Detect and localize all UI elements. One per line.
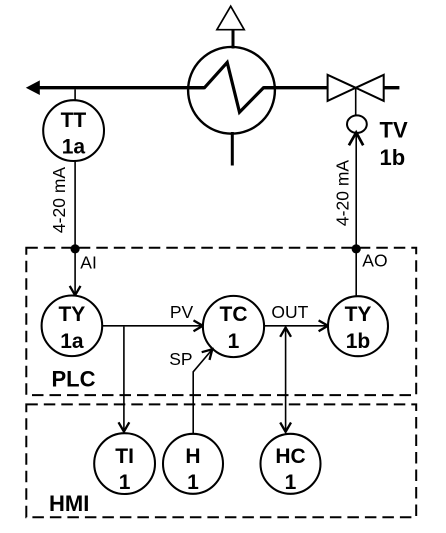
svg-text:TI: TI [115,445,134,468]
svg-text:4-20 mA: 4-20 mA [332,160,352,226]
svg-text:AO: AO [362,251,387,271]
svg-text:1b: 1b [380,145,406,170]
svg-text:H: H [185,445,200,468]
wire: TY1a to TC1 (PV) [102,325,201,327]
svg-text:1: 1 [285,471,297,494]
heat exchanger zigzag coil [188,62,275,112]
svg-text:PLC: PLC [52,367,96,392]
svg-text:HC: HC [275,445,305,468]
valve actuator circle [347,115,367,133]
control valve TV1b body left triangle [328,75,356,101]
wire: TC1 to TY1b (OUT) [264,325,326,327]
function block TY 1b circle [328,296,388,356]
valve stem [355,88,357,116]
arrowhead down into TY1a [70,286,81,295]
arrowhead right into TY1b [319,320,328,331]
svg-text:SP: SP [169,349,192,369]
svg-text:TV: TV [380,117,408,142]
svg-text:4-20 mA: 4-20 mA [49,167,69,233]
svg-text:TY: TY [58,303,85,326]
svg-text:1a: 1a [60,330,84,353]
indicator TI 1 circle [94,433,155,494]
svg-text:1a: 1a [62,136,86,159]
vent triangle [217,6,244,30]
arrowhead up into valve actuator [349,133,363,146]
wire: OUT branch to HC1 (bidirectional) [285,328,287,430]
controller TC 1 circle [203,296,264,357]
svg-text:1: 1 [187,471,199,494]
HMI boundary dashed box [26,404,416,517]
wire: process pipe middle segment [264,86,328,89]
wire: process pipe left segment [38,86,205,89]
svg-text:TC: TC [220,303,248,326]
wire: AO signal to valve [355,135,357,249]
heat exchanger E1 circle [188,47,275,134]
heat exchanger bottom stub [231,132,234,166]
wire: pipe to TT1a [74,89,76,101]
PLC boundary dashed box [26,248,416,395]
wire: branch to TI1 [123,327,125,431]
svg-text:1: 1 [228,330,240,353]
svg-text:AI: AI [80,253,97,273]
wire: process pipe right stub [384,86,400,89]
svg-text:TT: TT [61,109,87,132]
wire: TT1a to AI node [74,160,76,249]
hand controller HC 1 circle [261,434,321,494]
node AO junction dot [352,244,361,253]
svg-text:1: 1 [119,471,131,494]
svg-text:OUT: OUT [271,302,308,322]
control valve TV1b body right triangle [356,75,384,101]
arrowhead diagonal into TC1 [202,349,213,360]
node AI junction dot [71,244,80,253]
arrowhead right into TC1 [194,320,203,331]
arrowhead up to OUT line [280,328,291,337]
hand input H 1 circle [163,434,223,494]
svg-text:PV: PV [170,302,194,322]
svg-text:TY: TY [345,303,372,326]
wire: TY1b to AO node [355,249,357,296]
function block TY 1a circle [42,296,103,357]
wire: AI drop into TY1a [74,249,76,294]
arrowhead down into HC1 [280,423,291,432]
arrowhead down into TI1 [119,422,130,431]
wire: H1 to TC1 (SP) [193,351,211,434]
svg-text:1b: 1b [346,330,371,353]
instrument TT 1a circle [43,100,104,161]
heat exchanger top stub [232,30,235,49]
svg-text:HMI: HMI [49,491,89,516]
process flow arrow (left outlet) [26,80,40,95]
wire: H1 riser [192,432,194,435]
